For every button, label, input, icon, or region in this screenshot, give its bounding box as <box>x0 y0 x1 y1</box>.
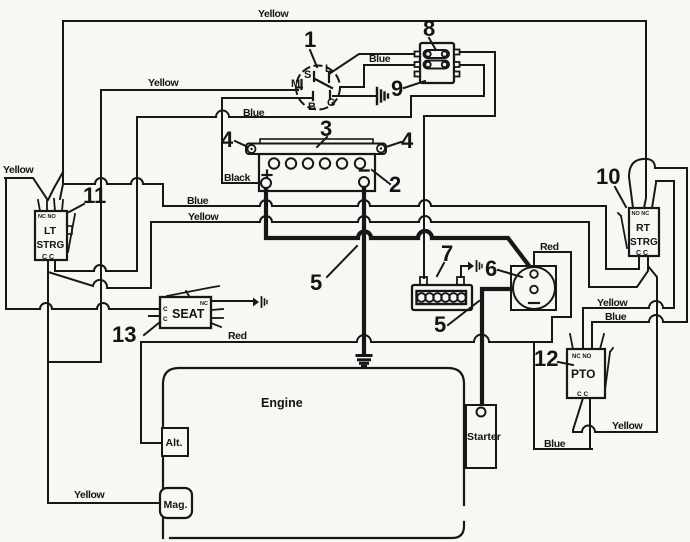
wire vertical x424 to component 7 post <box>423 116 425 278</box>
PTO stub prongs <box>570 334 604 349</box>
svg-text:Yellow: Yellow <box>148 77 180 89</box>
svg-text:7: 7 <box>441 241 453 266</box>
solenoid 6 mount plate <box>511 266 556 310</box>
wire yellow row y222 with hops at battery and x424 <box>151 216 589 222</box>
label 1 ignition switch <box>304 27 317 67</box>
svg-text:Mag.: Mag. <box>164 499 188 511</box>
wire stub from W1 corner to LT STRG prong <box>60 184 63 199</box>
svg-text:C: C <box>163 316 168 323</box>
svg-text:Yellow: Yellow <box>612 420 644 432</box>
svg-text:S: S <box>304 69 311 81</box>
label 9 ground <box>391 76 425 101</box>
label 5 harness right <box>434 301 479 337</box>
wire W1 drop x163 to blue row <box>162 184 164 206</box>
battery hold-down bar <box>246 144 386 155</box>
battery positive thick cable to solenoid, hops over x364 and x424 <box>266 186 533 271</box>
svg-text:Yellow: Yellow <box>188 211 220 223</box>
magneto box <box>160 488 192 518</box>
wire RT NC prong loop x674 <box>673 181 675 308</box>
solenoid terminal upper <box>530 270 538 278</box>
ignition terminal M <box>291 78 302 90</box>
wire PTO right C down to blue bottom run <box>589 398 591 449</box>
seat switch left stub prong <box>149 315 160 317</box>
wire red stub down to solenoid top terminal <box>533 252 535 269</box>
svg-text:Red: Red <box>540 241 559 253</box>
label 12 PTO <box>534 346 573 371</box>
svg-text:SEAT: SEAT <box>172 307 205 321</box>
fuse block 8 fuse 2 <box>424 61 450 69</box>
fuse block 8 body <box>420 43 454 83</box>
svg-text:M: M <box>291 78 300 90</box>
battery plus mark <box>263 171 272 180</box>
label 6 solenoid <box>485 256 522 281</box>
LT STRG lever <box>67 214 75 252</box>
wire seat switch right side to connector <box>211 300 252 302</box>
svg-text:Blue: Blue <box>544 438 566 450</box>
wire W1 y184 with hops over x101 x137 <box>63 178 163 184</box>
component 7 left post <box>420 277 427 285</box>
svg-text:6: 6 <box>485 256 497 281</box>
wire blue y117 from x137 to fuse block riser, hop over x222 <box>137 65 484 117</box>
svg-text:STRG: STRG <box>37 240 65 251</box>
svg-text:C C: C C <box>636 250 648 257</box>
svg-text:5: 5 <box>310 270 322 295</box>
ignition terminal G <box>327 91 336 109</box>
svg-text:Starter: Starter <box>467 431 501 443</box>
starter box <box>466 405 501 468</box>
label 11 LT STRG <box>69 183 106 212</box>
ignition switch 1 dashed circle <box>296 66 340 110</box>
wire blue row drop x606 to RT STRG bottom left C <box>606 206 639 269</box>
svg-text:Red: Red <box>228 330 247 342</box>
wire yellow M-terminal y90 <box>101 89 298 91</box>
wire PTO prong drop x583 <box>582 308 584 349</box>
svg-text:9: 9 <box>391 76 403 101</box>
wire yellow to Mag y503 <box>48 502 160 504</box>
svg-text:12: 12 <box>534 346 558 371</box>
engine ground symbol <box>357 356 371 367</box>
wire PTO prong drop x592 <box>591 322 593 349</box>
LT STRG prongs <box>38 199 63 211</box>
label 13 seat switch <box>112 322 160 347</box>
alternator box <box>162 428 188 456</box>
wire diagonal into LT STRG prong from top loop <box>48 172 63 200</box>
svg-text:1: 1 <box>304 27 316 52</box>
svg-text:Black: Black <box>224 172 251 184</box>
label 5 harness left <box>310 246 357 295</box>
label 3 hold-down <box>317 116 332 147</box>
wire vertical x646 top loop down to RT STRG middle prong <box>644 21 646 208</box>
seat switch actuator arm <box>167 286 219 296</box>
wire ignition B terminal y98 <box>222 97 311 99</box>
battery minus mark <box>360 169 369 171</box>
svg-text:C: C <box>163 306 168 313</box>
svg-text:4: 4 <box>221 127 234 152</box>
svg-text:4: 4 <box>401 128 414 153</box>
PTO switch 12 box <box>567 349 605 398</box>
wire y168 arc link to x687 <box>655 167 687 169</box>
wire jog y362 linking x48 and x101 <box>48 361 101 363</box>
wire yellow top loop (net Yellow, ignition area to RT STRG) <box>63 21 646 184</box>
svg-text:Blue: Blue <box>605 311 627 323</box>
wire LT STRG right C stub <box>54 260 56 271</box>
label 8 fuse block <box>423 16 436 50</box>
wire red from Alt to solenoid loop, hops over x364 and x482 <box>141 252 571 443</box>
wire RT NC prong <box>652 183 656 208</box>
solenoid ground tick <box>529 302 539 304</box>
wire yellow left label run to LT STRG prong <box>5 178 47 199</box>
wire RT NO prong arc hopping over x646 <box>629 159 655 208</box>
battery cell caps <box>269 158 365 168</box>
RT STRG lever <box>618 213 627 248</box>
svg-text:10: 10 <box>596 164 620 189</box>
wire vertical x101 from M wire down <box>100 90 102 362</box>
label 7 fuse holder <box>437 241 453 276</box>
wire vertical x137 (blue drop from y117) <box>136 117 138 271</box>
svg-text:11: 11 <box>83 183 106 208</box>
PTO lever <box>605 348 613 390</box>
component 7 fuse holder body <box>412 285 472 310</box>
svg-text:Engine: Engine <box>261 396 303 410</box>
wire ignition G side to fuse block mid left <box>340 65 417 87</box>
svg-text:NO NC: NO NC <box>632 211 650 217</box>
RT STRG switch 10 box <box>629 208 659 257</box>
svg-text:L: L <box>325 63 332 75</box>
svg-text:Blue: Blue <box>243 107 265 119</box>
svg-text:Yellow: Yellow <box>258 8 290 20</box>
svg-text:NC NO: NC NO <box>38 214 56 220</box>
connector plug icon near 6 <box>468 261 482 271</box>
svg-text:B: B <box>308 101 316 113</box>
svg-text:G: G <box>327 97 336 109</box>
ignition rotor contact <box>315 79 332 88</box>
wire vertical x222 to battery black <box>221 98 223 183</box>
wire vertical x151 yellow row to row y288 <box>150 222 152 288</box>
wire blue row y206 with hops <box>163 200 606 206</box>
wire branch x534 down to PTO blue bottom run <box>534 342 592 449</box>
wire seat feed horizontal y309 with hops over x48 and x101 <box>6 303 160 309</box>
wire PTO left C to bottom yellow run <box>573 398 583 432</box>
wire blue y322 PTO feed, hop over x657 <box>592 315 687 322</box>
battery bolt 4 left <box>248 145 256 153</box>
svg-text:13: 13 <box>112 322 136 347</box>
wire component 7 right post to connector <box>461 266 468 277</box>
wire y181 RT NC prong to x674 <box>656 180 674 182</box>
component 7 inner band <box>417 291 467 304</box>
engine block outline <box>163 368 464 538</box>
svg-text:RT: RT <box>636 222 651 234</box>
connector plug icon right of seat switch <box>253 297 267 307</box>
wire LT STRG left C down x48 to Mag run <box>47 260 49 503</box>
wire ignition G to chassis ground 9 <box>333 95 375 97</box>
svg-text:PTO: PTO <box>571 367 595 381</box>
wire left edge vertical x6 to seat feed <box>5 178 7 309</box>
svg-text:Yellow: Yellow <box>597 297 629 309</box>
svg-text:LT: LT <box>44 225 57 237</box>
svg-text:Alt.: Alt. <box>166 437 183 449</box>
wire row y288 from LT STRG area, hop over x101 <box>48 272 151 288</box>
wire yellow row drop x589 to RT STRG bottom C <box>589 222 648 287</box>
wire yellow y308 PTO feed, hop over x657 <box>583 301 674 308</box>
battery 2 case <box>259 154 375 191</box>
battery bolt 4 right <box>377 145 385 153</box>
wire RT STRG right C down x657 to bottom yellow <box>648 258 657 432</box>
label 10 RT STRG <box>596 164 626 207</box>
svg-text:Yellow: Yellow <box>74 489 106 501</box>
ignition terminal L <box>325 63 332 82</box>
seat switch 13 box <box>160 297 211 328</box>
solenoid 6 body circle <box>513 267 555 309</box>
thick cable solenoid to starter <box>482 289 531 406</box>
svg-text:C C: C C <box>42 254 54 261</box>
component 7 coil circles <box>417 293 466 302</box>
ignition terminal S <box>304 69 314 81</box>
label 4 left bolt <box>221 127 248 152</box>
wire row y271 LT right C to x137, hop over x101 <box>55 265 137 271</box>
battery positive terminal <box>261 178 271 188</box>
solenoid terminal lower <box>530 286 538 294</box>
svg-text:Blue: Blue <box>369 53 391 65</box>
wire fuse block top right loop down to x424 <box>424 52 495 116</box>
wire RT NO prong loop x687 <box>686 168 688 322</box>
label 4 right bolt <box>386 128 414 153</box>
LT STRG switch 11 box <box>35 211 67 261</box>
battery lid bar 3 <box>260 139 373 144</box>
battery negative thick cable to engine ground <box>362 185 366 353</box>
fuse block 8 fuse 1 <box>424 50 450 58</box>
component 7 right post <box>457 277 464 285</box>
ignition terminal B <box>308 92 316 113</box>
svg-text:Yellow: Yellow <box>3 164 35 176</box>
svg-text:NC: NC <box>200 301 208 307</box>
wire black jog into battery <box>222 182 259 184</box>
label 2 battery <box>372 170 401 197</box>
svg-text:STRG: STRG <box>630 237 658 248</box>
seat switch right prongs <box>211 309 223 327</box>
wire blue from ignition L to fuse block top left <box>329 54 417 74</box>
svg-text:Blue: Blue <box>187 195 209 207</box>
wire bottom yellow y432 hop over x590 to x657 <box>573 426 657 433</box>
chassis ground symbol 9 <box>377 88 388 104</box>
svg-text:5: 5 <box>434 312 446 337</box>
fuse block 8 terminals <box>415 50 460 77</box>
svg-text:NC NO: NC NO <box>572 354 592 360</box>
battery negative terminal <box>359 177 369 187</box>
svg-text:C C: C C <box>577 391 589 398</box>
